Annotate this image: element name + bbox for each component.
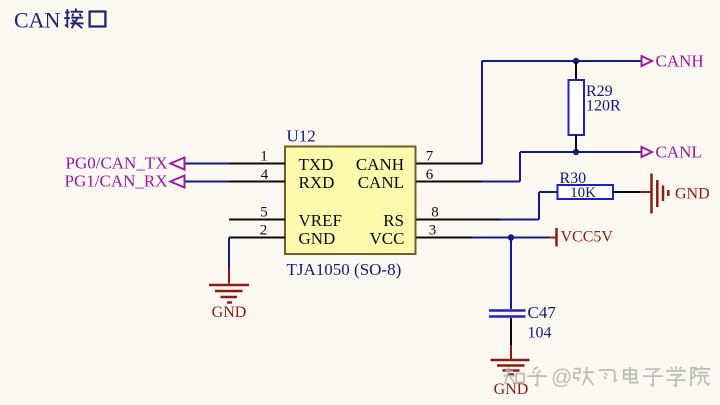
svg-text:VREF: VREF — [299, 211, 342, 230]
wire pin8 horizontal to R30 branch — [500, 219, 539, 221]
capacitor C47 plates — [489, 311, 526, 317]
svg-text:CANL: CANL — [358, 173, 404, 192]
svg-text:4: 4 — [261, 167, 269, 183]
svg-text:3: 3 — [429, 223, 437, 239]
svg-text:1: 1 — [260, 149, 268, 165]
svg-text:6: 6 — [426, 167, 434, 183]
wire pin2 to ground vertical — [228, 238, 230, 269]
wire net CAN_RX to port — [184, 181, 229, 183]
wire pin6 horizontal — [482, 181, 520, 183]
svg-text:CANH: CANH — [356, 155, 404, 174]
wire R30 branch vertical — [538, 192, 540, 220]
svg-text:TJA1050 (SO-8): TJA1050 (SO-8) — [287, 260, 402, 279]
wire net CAN_TX to port — [184, 163, 229, 165]
resistor R29 bottom lead — [575, 135, 577, 152]
junction VCC / C47 — [508, 234, 514, 240]
wire C47 bottom lead — [510, 318, 512, 345]
svg-text:5: 5 — [260, 205, 268, 221]
port CANL arrow — [642, 147, 653, 157]
svg-text:8: 8 — [431, 205, 439, 221]
port CANH arrow — [642, 56, 653, 66]
pin 5 stub (VREF) — [229, 219, 285, 221]
ground symbol right (sideways) — [652, 174, 669, 214]
svg-text:RXD: RXD — [299, 173, 335, 192]
svg-text:7: 7 — [426, 149, 434, 165]
wire CANL rail horizontal — [520, 151, 641, 153]
wire pin3 VCC horizontal — [472, 237, 549, 239]
svg-text:C47: C47 — [528, 303, 557, 322]
svg-text:VCC: VCC — [370, 229, 405, 248]
ground symbol bottom (under C47) — [491, 360, 530, 375]
resistor R29 top lead — [575, 61, 577, 80]
junction CANL / R29 bottom — [573, 149, 579, 155]
svg-text:120R: 120R — [586, 98, 621, 115]
pin 1 stub (TXD) — [229, 163, 285, 165]
pin 6 stub (CANL) — [416, 181, 482, 183]
wire to bottom GND — [510, 345, 512, 359]
pin 2 stub (GND) — [229, 237, 285, 239]
wire C47 top lead — [510, 238, 512, 310]
svg-text:104: 104 — [528, 325, 552, 342]
svg-text:PG0/CAN_TX: PG0/CAN_TX — [65, 154, 167, 173]
wire pin7 vertical up to CANH rail — [481, 61, 483, 164]
pin 3 stub (VCC) — [416, 237, 472, 239]
svg-text:GND: GND — [675, 186, 710, 203]
svg-text:GND: GND — [494, 381, 529, 398]
resistor R29 body — [569, 80, 585, 135]
junction CANH / R29 top — [573, 58, 579, 64]
svg-text:TXD: TXD — [299, 155, 334, 174]
svg-text:@: @ — [551, 366, 572, 389]
pin 4 stub (RXD) — [229, 181, 285, 183]
svg-text:2: 2 — [260, 223, 268, 239]
svg-text:U12: U12 — [287, 127, 316, 146]
resistor R30 right lead — [613, 191, 640, 193]
svg-text:GND: GND — [212, 304, 247, 321]
resistor R30 body — [558, 185, 614, 199]
wire R30 left lead — [539, 191, 558, 193]
svg-text:RS: RS — [383, 211, 404, 230]
watermark 知乎 @张飞电子学院 — [503, 366, 709, 389]
pin 8 stub (RS) — [416, 219, 500, 221]
svg-text:PG1/CAN_RX: PG1/CAN_RX — [65, 172, 168, 191]
svg-text:CANL: CANL — [656, 143, 702, 162]
svg-text:10K: 10K — [570, 185, 596, 201]
title CAN接口 — [14, 8, 105, 33]
ground symbol left (under pin 2) — [209, 285, 249, 303]
wire to GND symbol (right) — [640, 191, 651, 193]
wire pin6 vertical up to CANL rail — [519, 152, 521, 182]
power symbol VCC5V bar — [549, 228, 557, 247]
svg-text:CANH: CANH — [656, 52, 704, 71]
pin 7 stub (CANH) — [416, 163, 482, 165]
IC U12 body TJA1050 — [285, 147, 416, 255]
wire into left GND symbol — [228, 268, 230, 284]
port PG1/CAN_RX arrow — [171, 176, 185, 188]
svg-text:GND: GND — [299, 229, 336, 248]
svg-text:VCC5V: VCC5V — [561, 229, 614, 246]
wire CANH rail horizontal — [482, 60, 641, 62]
port PG0/CAN_TX arrow — [171, 158, 185, 170]
svg-text:CAN: CAN — [14, 8, 61, 33]
